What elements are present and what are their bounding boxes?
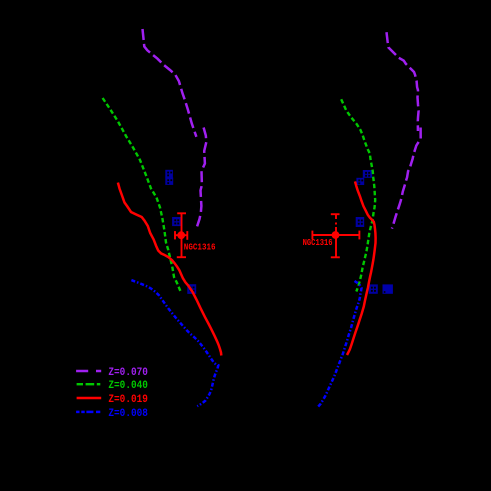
marker square pair right panel upper [356,170,372,185]
NGC1316 data point left panel: error bars [175,213,187,257]
marker square pair left panel upper [165,170,173,185]
NGC1316 data point right panel: error bars [312,214,359,257]
track Z=0.019 right panel (red solid) [347,181,376,355]
track Z=0.019 left panel (red solid) [118,183,221,356]
track Z=0.070 left panel (purple long-dash) [143,29,207,228]
svg-text:Z=0.019: Z=0.019 [108,394,147,406]
marker square right panel mid [356,217,365,227]
svg-text:NGC1316: NGC1316 [184,242,216,253]
legend line Z=0.040 [77,383,101,385]
svg-text:Z=0.040: Z=0.040 [108,380,147,392]
NGC1316 data point left panel: circle [177,231,185,239]
svg-text:Z=0.008: Z=0.008 [108,408,147,420]
svg-text:NGC1316: NGC1316 [303,237,333,248]
marker square left panel lower [187,284,196,294]
legend line Z=0.019 [77,397,102,400]
legend line Z=0.008 [76,411,100,414]
track Z=0.040 left panel (green dashed) [103,98,181,292]
track Z=0.008 right panel (blue dash-dot) [318,281,362,407]
track Z=0.040 right panel (green dashed) [341,99,375,291]
legend line Z=0.070 [76,370,101,373]
track Z=0.008 left panel (blue dash-dot) [131,280,218,406]
track Z=0.070 right panel (purple long-dash) [387,32,421,228]
marker squares right panel lower (open + filled) [369,284,393,293]
NGC1316 data point right panel: circle [332,231,340,239]
marker square left panel mid (next to error bar) [172,217,181,226]
svg-text:Z=0.070: Z=0.070 [108,367,147,379]
